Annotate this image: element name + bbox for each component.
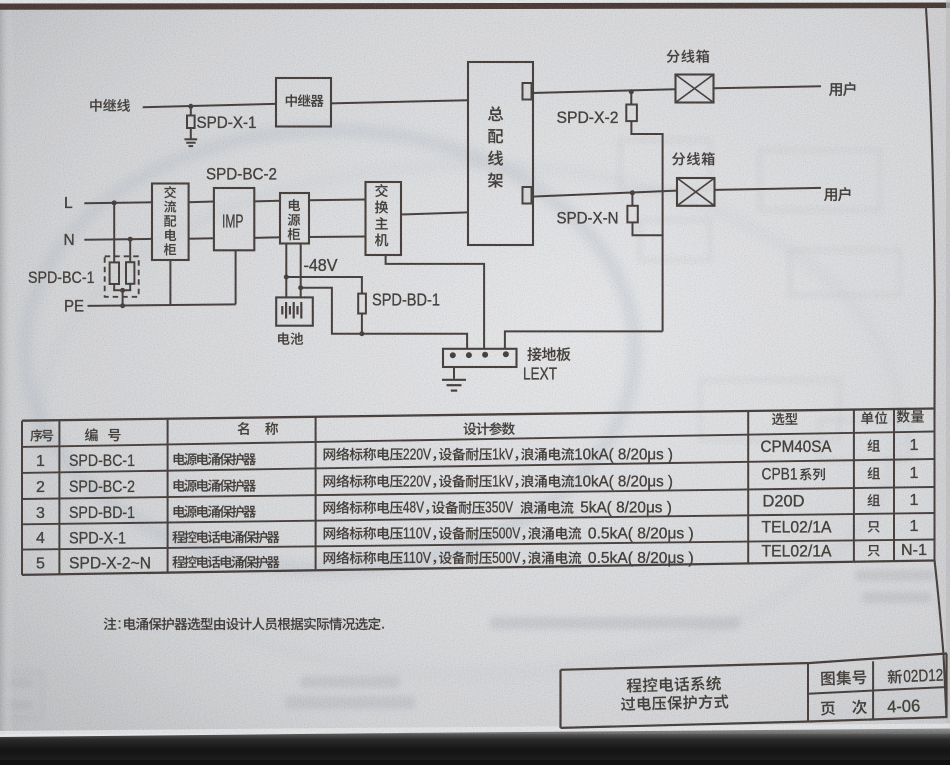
wire IMP to 电源柜 bottom: [254, 236, 280, 239]
wire 交换主机 to MDF: [401, 212, 468, 214]
table col 设计参数 values: [324, 448, 403, 461]
label 接地板: [527, 347, 570, 361]
MDF terminal bottom: [523, 187, 532, 204]
distribution box 分线箱 1 (X-box): [676, 75, 714, 103]
label 中继线: [90, 99, 130, 112]
SPD-BC-1 MOV 1: [113, 203, 115, 263]
power cabinet 电源柜: [280, 193, 309, 244]
table header 单位: [861, 411, 887, 424]
wire 电源柜 to 交换主机 bottom: [309, 236, 366, 239]
node tap B: [298, 285, 303, 290]
ground symbol LEXT: [442, 379, 466, 381]
wire trunk line 中继线: [143, 104, 276, 108]
label 用户 1: [829, 82, 856, 96]
distribution box 分线箱 2 (X-box): [677, 178, 715, 206]
node tap SPD-X-2: [629, 89, 634, 94]
wire SPD-X-2 down to earth bus: [631, 121, 662, 331]
wire 电源柜 A to battery: [285, 244, 287, 298]
wire IMP to 电源柜 top: [254, 200, 280, 203]
wire 交换主机 to earth plate: [386, 255, 485, 349]
node junction SPD-X-1 tap: [188, 104, 193, 109]
wire N to IMP: [189, 237, 214, 240]
SPD-X-1 arrester: [190, 106, 192, 115]
node -48V tap A: [284, 275, 289, 280]
title value 新02D12: [887, 669, 902, 684]
wire 交流配电柜 to PE: [169, 260, 171, 305]
wire 中继器 to MDF: [331, 100, 468, 103]
table header 数量: [897, 410, 924, 423]
table col 名称 values: [174, 453, 256, 466]
earth plate 接地板: [443, 349, 517, 367]
SPD-BC-1 MOV 2: [129, 239, 131, 262]
wire SPD-X-N down to earth bus: [633, 222, 663, 235]
repeater box 中继器 U-rep: [276, 78, 331, 127]
title text 程控电话系统: [627, 676, 722, 693]
wire earth bus to plate: [505, 331, 663, 348]
MDF terminal top: [523, 83, 532, 100]
node L tap: [112, 200, 117, 205]
SPD-X-N arrester: [631, 193, 633, 206]
title label 页次: [821, 699, 868, 715]
wire MOV bottoms join: [113, 284, 115, 290]
SPD-X-2 arrester: [630, 92, 632, 105]
IMP box SPD-BC-2: [214, 188, 254, 250]
wire L to IMP: [189, 201, 214, 204]
node N tap: [128, 237, 133, 242]
wire A to SPD-BD-1 top: [286, 277, 362, 294]
wire B to earth plate: [301, 288, 467, 349]
wire 电源柜 to 交换主机 top: [309, 199, 366, 202]
label 分线箱 1: [667, 49, 710, 62]
wire MDF to 分线箱 2: [532, 191, 678, 197]
table header 选型: [772, 413, 797, 426]
wire 电源柜 B to battery: [300, 244, 302, 298]
SPD-BC-1 dashed enclosure: [105, 256, 139, 297]
node PE tap: [120, 303, 125, 308]
plate terminals: [450, 352, 456, 358]
wire N: [84, 238, 152, 241]
title block frame: [561, 654, 948, 670]
note 注: [104, 617, 117, 630]
MDF box 总配线架: [468, 62, 533, 245]
battery box 电池: [276, 297, 313, 325]
wire MDF to 分线箱 1: [532, 89, 676, 93]
table header 编号: [85, 428, 121, 441]
ground under SPD-X-1: [184, 138, 197, 140]
wire IMP bottom to PE: [235, 250, 237, 304]
title text 过电压保护方式: [621, 694, 729, 711]
label 分线箱 2: [672, 152, 715, 165]
wire L: [84, 201, 152, 204]
title label 图集号: [821, 670, 867, 686]
exchange host 交换主机: [366, 182, 402, 255]
AC distribution cabinet 交流配电柜: [152, 184, 189, 261]
wire 分线箱2 to 用户: [715, 188, 822, 190]
table col 单位 values: [867, 439, 879, 451]
table header 设计参数: [464, 422, 515, 435]
wire PE: [88, 304, 236, 306]
label 电池: [278, 332, 303, 344]
label 用户 2: [824, 187, 851, 201]
table header 名称: [237, 422, 278, 435]
node SPD-BD-1 bottom: [359, 331, 364, 336]
wire plate to ground: [453, 367, 455, 379]
node tap SPD-X-N: [630, 190, 635, 195]
table grid: [22, 409, 935, 421]
table header 序号: [30, 429, 53, 441]
SPD-BD-1 arrester: [358, 294, 366, 314]
wire 分线箱1 to 用户: [714, 86, 822, 88]
page frame right border: [926, 8, 947, 718]
